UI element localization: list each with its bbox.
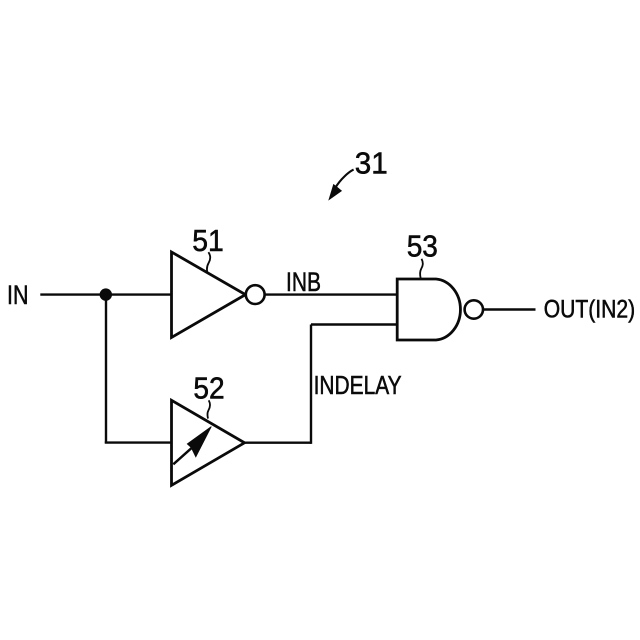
NAND gate 53 (397, 279, 483, 340)
wire IN input (40, 293, 171, 295)
label 31 (355, 146, 388, 181)
node OUT(IN2) label (544, 295, 635, 323)
svg-text:IN: IN (7, 279, 28, 310)
leader arrow to 31 (329, 170, 354, 200)
node INDELAY label (314, 372, 402, 400)
svg-text:INB: INB (286, 266, 321, 297)
wire junction down (105, 295, 107, 444)
label 51 (192, 223, 224, 258)
leader squiggle 51 (207, 252, 210, 272)
junction dot (100, 288, 112, 300)
label 52 (193, 371, 224, 406)
wire INB (265, 293, 398, 295)
wire to NAND lower input (311, 323, 398, 325)
leader squiggle 53 (420, 259, 423, 279)
svg-text:INDELAY: INDELAY (314, 372, 402, 400)
svg-text:31: 31 (355, 146, 388, 181)
delay buffer 52 (172, 400, 245, 485)
svg-text:53: 53 (407, 228, 438, 263)
delay arrow inside 52 (173, 427, 211, 465)
wire to delay input (105, 441, 172, 443)
wire INDELAY vertical (310, 325, 312, 444)
node INB label (286, 266, 321, 297)
node IN label (7, 279, 28, 310)
wire delay output (245, 442, 312, 444)
label 53 (407, 228, 438, 263)
svg-text:OUT(IN2): OUT(IN2) (544, 295, 635, 323)
inverter 51 (172, 252, 265, 338)
wire OUT (483, 308, 536, 310)
leader squiggle 52 (207, 400, 210, 418)
